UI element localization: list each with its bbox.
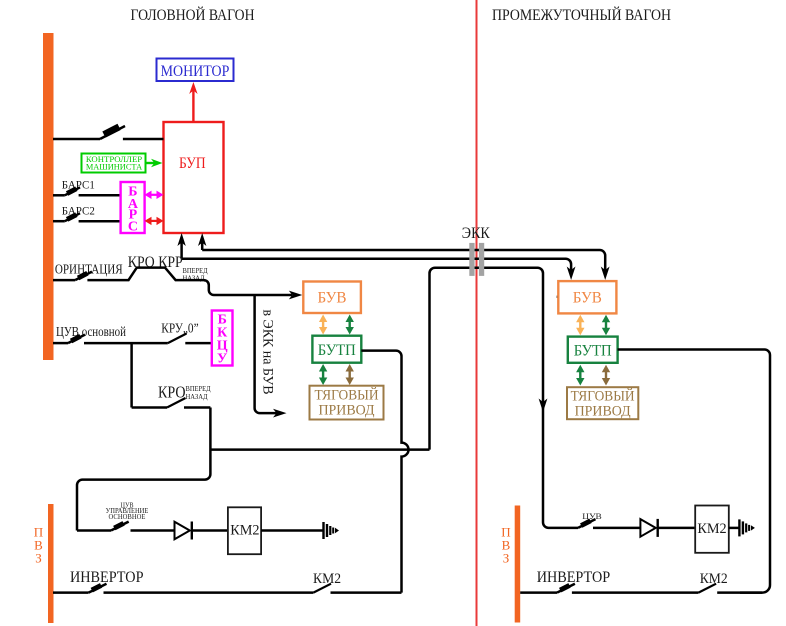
label PVZ left xyxy=(34,525,43,566)
label PVZ right xyxy=(501,525,510,566)
double arrow orange BUV-BUTP right xyxy=(576,315,584,335)
double arrow green BUV-BUTP left xyxy=(346,315,354,335)
svg-text:ОРИНТАЦИЯ: ОРИНТАЦИЯ xyxy=(55,263,123,278)
switch BARS2 xyxy=(53,212,121,221)
BUTP right box xyxy=(568,337,618,363)
coil symbol left xyxy=(324,522,340,539)
switch ORINTACIA and KRO KRR selector wire xyxy=(53,268,302,300)
wire v EKK na BUV vertical xyxy=(255,295,287,418)
svg-text:ОСНОВНОЕ: ОСНОВНОЕ xyxy=(109,514,146,521)
double arrow green BUTP-drive right xyxy=(576,365,584,386)
svg-text:ТЯГОВЫЙ: ТЯГОВЫЙ xyxy=(571,388,635,405)
svg-text:КМ2: КМ2 xyxy=(230,523,259,539)
svg-text:КРО: КРО xyxy=(158,383,186,402)
BARS box xyxy=(121,182,145,235)
diode right xyxy=(640,519,695,537)
junction wire down from CUV line xyxy=(130,343,133,407)
double arrow green BUTP-drive left xyxy=(319,364,327,385)
svg-text:БУП: БУП xyxy=(179,155,206,172)
traction drive left box xyxy=(310,386,384,420)
svg-text:С: С xyxy=(128,220,138,235)
switch KM2 left open xyxy=(313,584,401,593)
svg-text:ПРИВОД: ПРИВОД xyxy=(319,403,375,419)
BUTP left box xyxy=(312,336,361,363)
BUV left box xyxy=(303,282,361,314)
switch INVERTOR left xyxy=(53,583,313,592)
arrow controller to BUP xyxy=(146,159,163,167)
svg-text:З: З xyxy=(35,551,42,566)
svg-text:З: З xyxy=(503,551,510,566)
svg-text:ТЯГОВЫЙ: ТЯГОВЫЙ xyxy=(315,387,379,404)
bus bar right bottom xyxy=(515,506,521,623)
EKK connector bars xyxy=(469,243,484,276)
svg-text:У: У xyxy=(217,352,227,367)
switch CUV osnovnoy xyxy=(53,334,168,343)
svg-text:КРУ„0”: КРУ„0” xyxy=(161,321,198,336)
wire line C y267.7 across EKK xyxy=(430,268,579,528)
monitor box U-MON xyxy=(157,59,234,82)
KM2 coil box right xyxy=(695,506,729,553)
svg-text:ПРОМЕЖУТОЧНЫЙ ВАГОН: ПРОМЕЖУТОЧНЫЙ ВАГОН xyxy=(492,5,671,24)
switch KRU open xyxy=(168,334,212,344)
diode left xyxy=(175,522,228,540)
arrow up into BUP left xyxy=(177,233,185,259)
svg-text:БУТП: БУТП xyxy=(318,342,356,359)
wire KM2 to coil symbol right xyxy=(729,527,740,530)
svg-text:ЭКК: ЭКК xyxy=(462,225,491,242)
svg-text:ЦУВ: ЦУВ xyxy=(582,512,602,521)
coil symbol right xyxy=(739,519,755,536)
svg-text:ПРИВОД: ПРИВОД xyxy=(575,404,631,420)
traction drive right box xyxy=(567,387,638,419)
wire top switch to BUP xyxy=(53,124,164,139)
switch CUV right xyxy=(578,519,640,528)
wire KRO down and across to CUV upravlenie xyxy=(77,408,210,531)
switch KM2 right open xyxy=(699,584,763,593)
double arrow brown BUTP-drive left xyxy=(346,364,354,385)
svg-text:КМ2: КМ2 xyxy=(697,521,726,537)
double arrow brown BUTP-drive right xyxy=(602,365,610,386)
svg-text:БУВ: БУВ xyxy=(318,290,347,307)
svg-text:БУТП: БУТП xyxy=(574,343,612,360)
switch INVERTOR right xyxy=(520,583,698,592)
svg-text:НАЗАД: НАЗАД xyxy=(186,392,208,401)
arrow up into BUP right xyxy=(198,233,206,250)
svg-text:МАШИНИСТА: МАШИНИСТА xyxy=(86,162,143,172)
svg-text:ГОЛОВНОЙ ВАГОН: ГОЛОВНОЙ ВАГОН xyxy=(131,5,255,24)
switch CUV upravlenie left xyxy=(77,521,175,530)
switch BARS1 xyxy=(53,186,121,195)
wire line B y258.7 to right BUV xyxy=(182,259,576,280)
divider red line xyxy=(476,0,478,626)
double arrow BARS-BUP red xyxy=(145,217,164,225)
BUP box xyxy=(164,122,224,233)
wire KM2 to coil symbol left xyxy=(261,529,323,532)
label VPERED NAZAD lower xyxy=(186,384,211,401)
arrow BUP to monitor xyxy=(189,82,197,122)
KM2 coil box left xyxy=(228,507,261,554)
BKCU box xyxy=(212,311,233,367)
double arrow BARS-BUP magenta xyxy=(145,191,164,199)
svg-text:ЦУВ основной: ЦУВ основной xyxy=(56,325,126,340)
wire y449.6 from KRO vertical to line C vertical xyxy=(210,448,429,451)
svg-text:ИНВЕРТОР: ИНВЕРТОР xyxy=(70,569,144,586)
stray dot left of right BUV xyxy=(557,296,559,298)
wire line A y250 to right BUV xyxy=(202,250,609,280)
BUV right box xyxy=(558,281,616,313)
controller box xyxy=(82,154,146,173)
wire BUTP left to bottom with hop xyxy=(361,351,408,593)
svg-text:БУВ: БУВ xyxy=(573,290,602,307)
wire BUTP right to bottom right xyxy=(618,350,770,593)
svg-text:в ЭКК на БУВ: в ЭКК на БУВ xyxy=(260,310,276,395)
bus bar left bottom xyxy=(48,504,54,623)
svg-text:МОНИТОР: МОНИТОР xyxy=(161,63,230,80)
switch KRO open xyxy=(132,398,211,408)
label VPERED NAZAD top xyxy=(183,266,208,282)
double arrow orange BUV-BUTP left xyxy=(319,315,327,335)
bus bar left top xyxy=(43,33,54,360)
double arrow green BUV-BUTP right xyxy=(602,315,610,335)
label CUV upravlenie osnovnoe xyxy=(106,502,149,520)
